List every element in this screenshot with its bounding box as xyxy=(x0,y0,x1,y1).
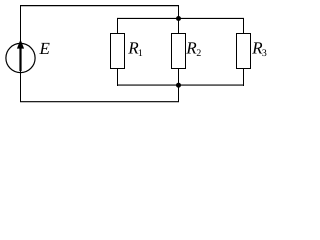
node junction dot top xyxy=(176,16,181,21)
wire R1 top lead xyxy=(117,19,119,35)
resistor R1 box xyxy=(111,34,125,69)
wire R3 bottom lead xyxy=(243,68,245,86)
wire top from source to feed drop xyxy=(20,5,179,7)
wire bottom from source to feed riser xyxy=(20,101,179,103)
source E arrow shaft xyxy=(19,47,21,71)
resistor R3 box xyxy=(237,34,251,69)
wire left vertical through source xyxy=(20,5,22,102)
wire feed drop top xyxy=(178,5,180,19)
source E arrowhead xyxy=(17,39,24,48)
source E circle xyxy=(6,43,35,72)
label R1 xyxy=(128,42,138,53)
label R3 xyxy=(252,42,262,53)
label R2 xyxy=(186,42,196,53)
wire R2 top lead xyxy=(178,19,180,35)
wire R1 bottom lead xyxy=(117,68,119,86)
wire feed riser bottom xyxy=(178,85,180,102)
resistor R2 box xyxy=(172,34,186,69)
label E xyxy=(39,43,49,54)
wire R3 top lead xyxy=(243,19,245,35)
node junction dot bottom xyxy=(176,83,181,88)
wire bottom rail xyxy=(117,84,244,86)
wire R2 bottom lead xyxy=(178,68,180,86)
wire top rail xyxy=(117,17,244,19)
